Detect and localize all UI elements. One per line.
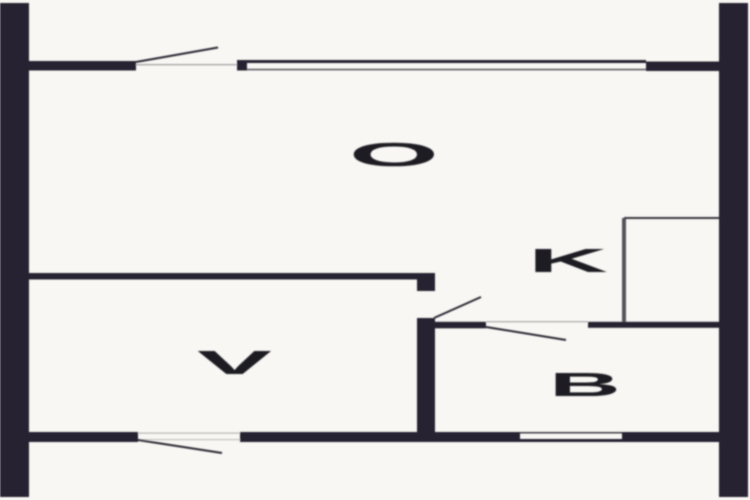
door leaf B	[486, 327, 566, 340]
wall left exterior	[0, 3, 29, 497]
wall top-left segment	[29, 61, 136, 71]
svg-text:B: B	[549, 366, 621, 403]
wall corner block hall	[417, 273, 435, 291]
door threshold bottom: bottom line	[138, 439, 240, 440]
wall bottom-middle segment	[240, 432, 520, 442]
door threshold top	[136, 64, 238, 65]
door threshold bottom: top line	[138, 433, 240, 434]
window bottom: upper line	[520, 432, 622, 434]
svg-text:V: V	[197, 344, 272, 381]
svg-text:O: O	[349, 136, 439, 173]
closet K left edge	[622, 218, 626, 322]
wall right exterior	[719, 3, 748, 497]
window top: lower line	[247, 69, 646, 71]
window bottom: lower line	[520, 439, 622, 442]
wall divider O/V	[29, 273, 418, 280]
wall bottom-left segment	[29, 432, 138, 442]
door threshold B	[486, 321, 588, 322]
wall bottom-right segment	[622, 432, 719, 442]
closet K top edge	[624, 217, 719, 219]
window top: upper line	[247, 60, 646, 63]
door leaf top-left	[136, 48, 218, 63]
svg-text:K: K	[528, 242, 608, 279]
door leaf hall	[434, 297, 481, 318]
wall block between door and window	[237, 60, 247, 71]
wall B top-left segment	[434, 322, 486, 329]
door leaf bottom	[138, 440, 222, 453]
wall vertical hall lower	[417, 318, 435, 442]
wall B top-right segment	[588, 322, 719, 328]
wall top-right segment	[646, 62, 719, 72]
